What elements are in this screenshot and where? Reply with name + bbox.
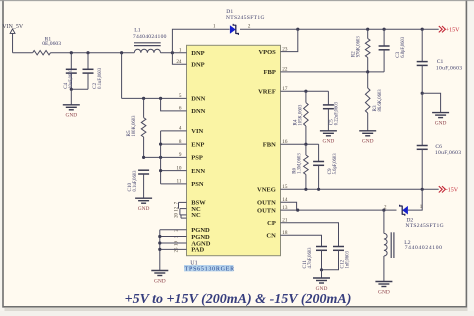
node C1 bottom junction <box>421 92 424 95</box>
svg-text:FBP: FBP <box>264 69 276 76</box>
svg-text:PSN: PSN <box>191 181 204 188</box>
svg-text:OUTN: OUTN <box>257 207 276 214</box>
svg-text:GND: GND <box>65 113 77 119</box>
wire to pin 24 <box>172 53 186 65</box>
svg-text:CN: CN <box>266 233 276 240</box>
wire R1 to L1 <box>51 52 135 54</box>
wire input rail <box>13 52 33 54</box>
wire FBN <box>281 143 319 145</box>
resistor R2 <box>351 29 370 72</box>
capacitor C11 <box>302 247 327 270</box>
svg-text:5.6pF,0603: 5.6pF,0603 <box>333 153 338 175</box>
svg-text:74404024100: 74404024100 <box>133 34 167 40</box>
node DNN branch junction <box>120 51 123 54</box>
node PGND2 <box>158 235 161 238</box>
wire D2 to -15V rail <box>408 189 422 210</box>
wire pin11 stub <box>161 183 187 185</box>
wire D1 to +15V rail <box>240 28 439 30</box>
wire VIN vertical <box>12 33 14 52</box>
wire PSP <box>144 156 187 158</box>
diode D1 NTS245SFT1G <box>213 9 265 35</box>
ground GND PGND <box>151 270 168 272</box>
power port -15V <box>439 186 459 193</box>
svg-text:10uF,0603: 10uF,0603 <box>436 66 463 72</box>
svg-text:6.8pF,0603: 6.8pF,0603 <box>401 36 406 58</box>
node -15V junction <box>421 188 424 191</box>
svg-text:NTS245SFT1G: NTS245SFT1G <box>405 223 444 229</box>
resistor R5 <box>126 98 146 157</box>
node DNN pin6 branch <box>159 97 162 100</box>
svg-text:GND: GND <box>323 139 335 145</box>
node C4/C2 ground junction <box>70 88 73 91</box>
svg-text:NTS245SFT1G: NTS245SFT1G <box>226 15 265 21</box>
svg-text:976K,0603: 976K,0603 <box>357 36 362 58</box>
capacitor C12 <box>322 247 351 270</box>
ground GND C1 <box>432 112 449 114</box>
wire VNEG -15V rail <box>281 188 439 190</box>
wire enable bus <box>160 131 162 184</box>
U1 designator text <box>184 261 235 273</box>
svg-text:C1: C1 <box>437 59 444 65</box>
svg-text:GND: GND <box>138 206 150 212</box>
svg-text:VREF: VREF <box>258 89 276 96</box>
inductor L1 74404024100 <box>133 27 167 52</box>
node L2 junction <box>382 209 385 212</box>
svg-text:PSP: PSP <box>191 155 203 162</box>
svg-text:+5V to +15V (200mA) & -15V (20: +5V to +15V (200mA) & -15V (200mA) <box>125 292 352 307</box>
svg-text:GND: GND <box>435 120 447 126</box>
capacitor C10 <box>127 170 149 198</box>
node switch node junction <box>171 51 174 54</box>
resistor R3 <box>365 72 383 131</box>
svg-text:ENN: ENN <box>191 168 205 175</box>
wire L1 to switch node <box>161 52 187 54</box>
ground GND input caps <box>63 89 80 118</box>
ground GND C5 <box>320 130 337 132</box>
wire pin8 stub <box>161 143 187 145</box>
wire switch node up to D1 <box>172 29 229 53</box>
power port VIN_5V <box>2 24 24 34</box>
svg-text:DNP: DNP <box>191 50 204 57</box>
node R6 bottom <box>304 188 307 191</box>
diode D2 NTS245SFT1G <box>384 205 444 230</box>
capacitor C2 <box>83 53 104 90</box>
node FBP junction <box>366 70 369 73</box>
capacitor C3 <box>379 29 406 72</box>
node FBN junction <box>304 143 307 146</box>
svg-text:0E,0603: 0E,0603 <box>42 41 61 47</box>
svg-text:GND: GND <box>378 289 390 295</box>
svg-text:TPS65130RGER: TPS65130RGER <box>185 267 235 273</box>
wire BSW NC bracket <box>179 202 187 218</box>
svg-text:VIN: VIN <box>191 128 203 135</box>
ground GND C11 <box>313 270 330 292</box>
inductor L2 74404024100 <box>384 210 443 281</box>
svg-text:74404024100: 74404024100 <box>405 245 443 251</box>
svg-text:86.6K,0603: 86.6K,0603 <box>378 89 383 112</box>
resistor R6 <box>292 144 309 189</box>
node C11/C12 junction <box>320 268 323 271</box>
svg-text:-15V: -15V <box>446 188 459 194</box>
power port +15V <box>439 26 460 33</box>
svg-text:PAD: PAD <box>191 247 204 254</box>
op-amp U1 TPS65130RGER IC body <box>187 45 281 255</box>
wire DNN branch vertical <box>121 53 123 99</box>
svg-text:CP: CP <box>267 220 276 227</box>
svg-text:0.1uF,0603: 0.1uF,0603 <box>133 170 138 192</box>
svg-text:DNN: DNN <box>191 108 205 115</box>
node AGND <box>158 241 161 244</box>
wire pin10 stub <box>161 170 187 172</box>
node OUTN junction <box>296 209 299 212</box>
svg-text:L1: L1 <box>134 27 140 33</box>
capacitor C9 <box>313 144 338 189</box>
node bus pin10 <box>159 169 162 172</box>
ground GND C10 <box>135 197 152 199</box>
svg-text:100K,0603: 100K,0603 <box>132 115 137 137</box>
svg-text:GND: GND <box>316 286 328 292</box>
wire CP <box>281 223 339 247</box>
svg-text:4.7nF,0603: 4.7nF,0603 <box>308 247 313 269</box>
node C4 junction <box>70 51 73 54</box>
node PAD <box>158 248 161 251</box>
wire OUTN pin14 stub <box>281 202 297 210</box>
svg-text:NC: NC <box>191 212 201 219</box>
node R5 top <box>142 97 145 100</box>
svg-text:0.1uF,0603: 0.1uF,0603 <box>98 67 103 89</box>
wire VPOS branch <box>281 29 298 51</box>
svg-text:FBN: FBN <box>263 142 276 149</box>
node bus pin8 <box>159 143 162 146</box>
capacitor C5 <box>323 91 340 131</box>
wire FBP <box>281 71 385 73</box>
ground GND R3 <box>359 130 376 132</box>
node C1 top <box>421 28 424 31</box>
node C9 bottom <box>317 188 320 191</box>
wire VREF <box>281 90 329 92</box>
wire CN <box>281 235 322 246</box>
svg-text:VNEG: VNEG <box>257 187 276 194</box>
wire OUTN line <box>281 209 397 211</box>
wire pin4 stub <box>161 130 187 132</box>
svg-text:VPOS: VPOS <box>258 49 276 56</box>
wire to GND stub <box>422 93 440 112</box>
svg-text:DNP: DNP <box>191 62 204 69</box>
svg-text:C6: C6 <box>435 144 442 150</box>
svg-text:20: 20 <box>175 213 180 218</box>
capacitor C6 <box>417 93 462 189</box>
node VPOS branch <box>296 28 299 31</box>
resistor R1 <box>33 36 62 55</box>
node C2 junction <box>86 51 89 54</box>
svg-text:ENP: ENP <box>191 141 204 148</box>
svg-text:1.3M,0603: 1.3M,0603 <box>298 153 303 174</box>
wire C2 bottom to C4 bottom <box>71 88 88 90</box>
svg-text:0.22uF,0603: 0.22uF,0603 <box>335 101 340 125</box>
svg-text:105K,0603: 105K,0603 <box>299 104 304 126</box>
node R4 top <box>304 90 307 93</box>
svg-text:1nF,0603: 1nF,0603 <box>346 250 351 268</box>
node R5 bottom <box>142 156 145 159</box>
capacitor C4 <box>63 53 77 90</box>
resistor R4 <box>293 91 309 144</box>
node R2 top <box>366 28 369 31</box>
svg-text:DNN: DNN <box>191 96 205 103</box>
svg-text:GND: GND <box>362 139 374 145</box>
U1 pin names and numbers <box>175 46 288 253</box>
node enable bus PSP <box>159 156 162 159</box>
wire to pin 6 <box>161 98 187 111</box>
svg-text:+15V: +15V <box>446 27 460 33</box>
wire DNN line <box>122 97 187 99</box>
svg-text:10uF,0603: 10uF,0603 <box>435 150 462 156</box>
svg-text:GND: GND <box>154 278 166 284</box>
svg-text:OUTN: OUTN <box>257 200 276 207</box>
svg-text:10uF,0603: 10uF,0603 <box>69 68 74 88</box>
node C3 top <box>383 28 386 31</box>
ground GND L2 <box>375 281 392 283</box>
wire PGND bus <box>160 230 187 271</box>
capacitor C1 <box>417 29 463 93</box>
